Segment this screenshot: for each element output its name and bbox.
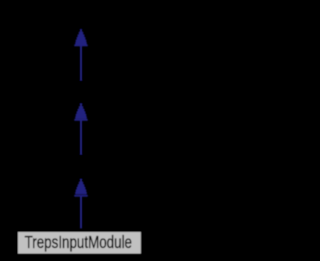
- arrow 3 head: [75, 179, 87, 194]
- arrow 1 head: [75, 29, 87, 44]
- node box A (top, invisible black on black): [16, 5, 146, 29]
- node box B (invisible black on black): [16, 81, 146, 104]
- arrow 3 shaft: [80, 196, 82, 228]
- svg-text:TrepsInputModule: TrepsInputModule: [25, 232, 132, 252]
- arrow 2 head: [75, 104, 87, 119]
- node box TrepsInputModule (grey, current class): [17, 231, 142, 255]
- arrow 2 shaft: [80, 121, 82, 155]
- arrow 1 shaft: [80, 46, 82, 81]
- node box C (invisible black on black): [16, 155, 146, 179]
